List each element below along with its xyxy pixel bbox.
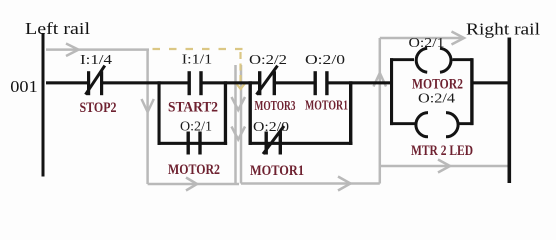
svg-text:I:1/4: I:1/4 [80, 52, 113, 67]
coil O:2/4 MTR2LED left arc [416, 113, 428, 137]
svg-text:START2: START2 [168, 100, 218, 116]
wire gray arrow right on G8 [438, 160, 450, 173]
wire dashed yellow horizontal [153, 48, 247, 50]
wire gray arrow right on G7 [452, 32, 465, 45]
branch2 right vertical [349, 81, 352, 145]
svg-text:I:1/1: I:1/1 [182, 52, 213, 67]
wire dashed yellow vertical [239, 52, 241, 84]
wire gray G4b vertical between branches [240, 65, 243, 184]
wire main rung segment 3 [203, 81, 259, 84]
svg-text:MOTOR2: MOTOR2 [412, 77, 463, 93]
wire main rung segment 4 [276, 81, 315, 84]
branch2 lower wire [249, 142, 353, 145]
wire gray arrow right on G3 [186, 178, 197, 191]
contact O:2/1 MOTOR2 branch left bar [187, 132, 190, 155]
wire gray G3 bottom of branch1 box [148, 183, 239, 186]
output branch right vertical [470, 58, 473, 125]
contact O:2/0 MOTOR1 right bar [325, 71, 328, 95]
wire main rung segment 1 [46, 81, 88, 84]
svg-text:O:2/1: O:2/1 [180, 119, 212, 134]
contact O:2/1 MOTOR2 branch right bar [198, 132, 201, 155]
gray flow path top-left [46, 32, 508, 191]
left rail [42, 33, 45, 177]
contact I:1/4 STOP2 right bar [100, 71, 103, 95]
branch2 left vertical [249, 81, 252, 145]
contact O:2/0 branch NC slash [263, 126, 284, 154]
output branch left vertical [390, 58, 393, 125]
wire gray G2 vertical down at x=147.6 [146, 50, 149, 184]
wire main rung segment 2 [103, 81, 188, 84]
svg-text:STOP2: STOP2 [80, 100, 117, 116]
branch1 left vertical [158, 81, 161, 145]
svg-text:MOTOR2: MOTOR2 [168, 162, 220, 178]
wire gray G4a vertical between branches [234, 65, 237, 184]
contact O:2/2 MOTOR3 right bar [273, 71, 276, 95]
svg-text:Left rail: Left rail [25, 19, 90, 38]
svg-text:O:2/0: O:2/0 [253, 119, 289, 134]
coil O:2/1 MOTOR2 right arc [440, 48, 451, 72]
wire gray G6 vertical up at x=379.8 [379, 38, 382, 184]
svg-text:O:2/4: O:2/4 [418, 91, 455, 106]
branch1 right vertical [224, 81, 227, 145]
svg-text:Right rail: Right rail [466, 20, 540, 39]
wire main rung segment 5 [329, 81, 392, 84]
coil O:2/1 MOTOR2 left arc [416, 48, 427, 72]
svg-text:O:2/0: O:2/0 [305, 52, 346, 67]
contact O:2/0 MOTOR1 left bar [314, 71, 317, 95]
wire gray G8 horizontal to right rail [380, 165, 508, 168]
svg-text:MOTOR3: MOTOR3 [255, 98, 296, 113]
svg-text:MTR 2 LED: MTR 2 LED [411, 143, 473, 159]
contact I:1/4 NC slash [86, 66, 105, 95]
wire gray arrow down on G2 [142, 99, 154, 112]
output top wire right stub [453, 58, 473, 61]
arrowhead dashed yellow path [236, 84, 245, 90]
output bottom wire right stub [458, 122, 474, 125]
contact O:2/2 NC slash [257, 66, 278, 95]
selection highlight dashed yellow [153, 49, 247, 89]
contact I:1/4 STOP2 left bar [87, 71, 90, 95]
wire gray G1 horizontal from left rail [46, 48, 149, 51]
svg-text:MOTOR1: MOTOR1 [250, 163, 304, 179]
wire gray chevron down upper on G4 [232, 97, 246, 110]
svg-text:O:2/1: O:2/1 [409, 35, 445, 50]
contact O:2/0 MOTOR1 branch left bar [265, 132, 268, 155]
svg-text:O:2/2: O:2/2 [249, 52, 287, 67]
wire gray arrow up on G6 [374, 73, 387, 87]
contact I:1/1 START2 left bar [188, 71, 191, 95]
wire gray G7 top horizontal to Right rail [380, 37, 462, 40]
contact I:1/1 START2 right bar [199, 71, 202, 95]
output top wire left stub [390, 58, 414, 61]
branch1 lower wire [158, 142, 228, 145]
contact O:2/0 MOTOR1 branch right bar [279, 132, 282, 155]
contact O:2/2 MOTOR3 left bar [258, 71, 261, 95]
wire gray arrow right on G1 [66, 44, 79, 57]
wire gray G5 bottom of branch2 box [241, 182, 380, 185]
coil O:2/4 MTR2LED right arc [446, 113, 458, 137]
wire gray arrow right on G5 [338, 177, 351, 191]
output bottom wire left stub [390, 122, 417, 125]
svg-text:MOTOR1: MOTOR1 [305, 98, 348, 113]
right rail [508, 38, 512, 184]
wire main rung segment 6 (to right rail) [473, 81, 508, 84]
svg-text:001: 001 [10, 77, 38, 96]
wire gray chevron down lower on G4 [232, 127, 246, 140]
